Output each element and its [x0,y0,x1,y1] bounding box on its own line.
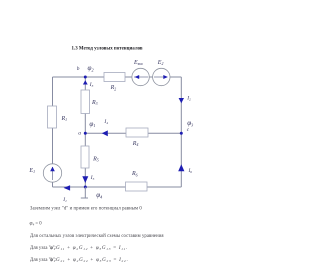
EMF source E_ekv [132,68,149,85]
svg-text:c: c [187,127,190,133]
svg-text:E1: E1 [28,168,35,174]
resistor R5 [81,146,89,168]
svg-text:φ4: φ4 [96,191,102,199]
current arrow I3 [83,80,88,84]
svg-text:I3: I3 [89,82,94,88]
svg-text:R5: R5 [92,157,99,163]
wire right [180,77,182,187]
svg-text:R6: R6 [131,171,138,177]
wire middle vertical [84,77,86,187]
svg-text:Eэкв: Eэкв [133,60,143,66]
current arrow I4 [102,130,108,136]
node c [180,132,183,135]
EMF source E2 [153,68,170,85]
svg-text:R1: R1 [61,116,68,122]
svg-text:R3: R3 [91,100,98,106]
resistor R2 [104,73,125,82]
svg-text:I4: I4 [103,119,108,125]
wire top [53,76,182,78]
EMF source E1 [43,164,61,182]
svg-text:I6: I6 [188,168,193,174]
svg-text:Для остальных узлов электричес: Для остальных узлов электрической схемы … [30,234,164,239]
node b [84,76,87,79]
resistor R3 [81,90,90,114]
svg-text:b: b [77,66,80,72]
node d [84,186,87,189]
resistor R1 [48,106,57,128]
svg-text:R4: R4 [132,141,139,147]
current arrow I1 [64,185,71,190]
wire middle horizontal [85,132,181,134]
ground symbol [84,187,86,198]
wire left [52,77,54,187]
svg-text:R2: R2 [110,85,117,91]
svg-text:φ3: φ3 [187,119,193,127]
svg-text:φ4 = 0: φ4 = 0 [30,221,43,227]
current arrow I6 [178,164,184,171]
svg-text:I2: I2 [186,96,191,102]
current arrow I5 [82,176,88,183]
resistor R6 [126,182,148,191]
resistor R4 [126,128,148,137]
svg-text:Заземлим узел "d" и примем его: Заземлим узел "d" и примем его потенциал… [30,207,142,212]
svg-text:φ2: φ2 [88,64,94,72]
current arrow I2 [179,98,184,103]
svg-text:φ1G21 + φ2G22 + φ3G23 = I22.: φ1G21 + φ2G22 + φ3G23 = I22. [50,257,128,263]
svg-text:a: a [78,131,81,137]
svg-text:E2: E2 [157,60,164,66]
svg-text:I5: I5 [90,175,95,181]
svg-text:φ1: φ1 [89,120,95,128]
node a [84,132,87,135]
svg-text:I1: I1 [62,197,67,203]
wire bottom [53,186,182,188]
svg-text:φ1G11 + φ2G12 + φ3G13 = I11.: φ1G11 + φ2G12 + φ3G13 = I11. [50,245,128,251]
svg-text:1.3 Метод узловых потенциалов: 1.3 Метод узловых потенциалов [72,46,143,51]
